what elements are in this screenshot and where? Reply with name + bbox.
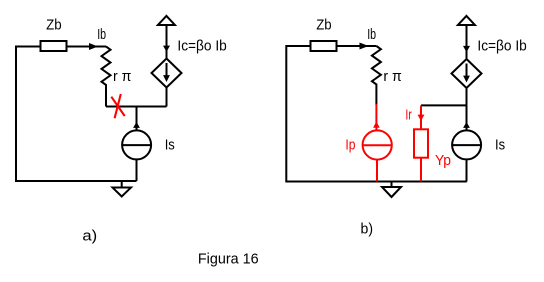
svg-text:Zb: Zb <box>46 17 62 34</box>
svg-text:Ib: Ib <box>97 26 106 43</box>
svg-text:Figura 16: Figura 16 <box>198 251 259 268</box>
svg-text:Yp: Yp <box>435 152 451 169</box>
svg-text:Zb: Zb <box>316 16 331 33</box>
svg-text:r π: r π <box>113 68 131 85</box>
svg-text:Ic=βo Ib: Ic=βo Ib <box>477 38 526 55</box>
svg-text:Is: Is <box>165 137 175 154</box>
svg-text:a): a) <box>82 227 97 244</box>
svg-text:Ic=βo Ib: Ic=βo Ib <box>177 38 226 55</box>
svg-text:Ir: Ir <box>405 107 411 124</box>
svg-text:Ib: Ib <box>367 26 376 43</box>
svg-text:Ip: Ip <box>345 137 355 154</box>
svg-text:Is: Is <box>495 137 505 154</box>
svg-text:b): b) <box>361 221 374 238</box>
svg-text:r π: r π <box>383 68 401 85</box>
